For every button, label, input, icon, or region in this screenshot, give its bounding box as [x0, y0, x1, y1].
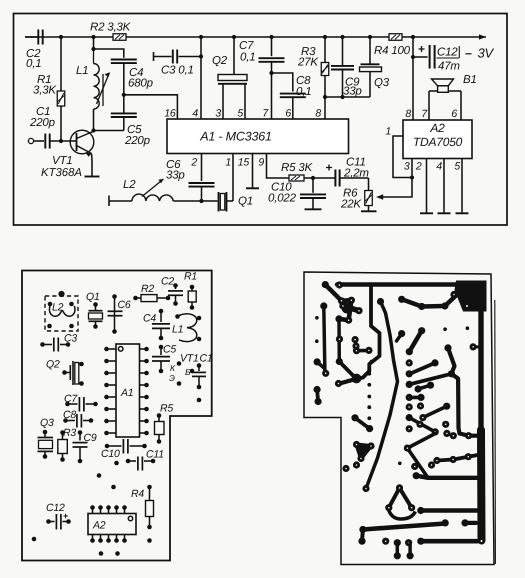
pcb pads	[398, 296, 405, 303]
layout R4	[147, 485, 152, 490]
layout R2	[133, 296, 138, 301]
svg-text:C6: C6	[118, 299, 131, 311]
pcb trace	[424, 406, 447, 417]
wire pin15	[252, 154, 254, 189]
wire A2 pin3	[411, 159, 413, 178]
svg-text:C3 0,1: C3 0,1	[161, 65, 194, 77]
layout Q2	[62, 370, 67, 375]
pcb dots column	[367, 372, 371, 376]
layout L2	[45, 296, 78, 331]
svg-text:R2: R2	[141, 283, 154, 295]
wire pin4	[200, 37, 202, 119]
pcb pad	[362, 485, 369, 492]
pcb pad	[417, 394, 424, 401]
arrow wiper	[376, 194, 383, 199]
svg-text:VT1: VT1	[180, 353, 199, 365]
svg-text:5: 5	[454, 161, 460, 173]
pcb trace V1	[324, 306, 325, 373]
svg-text:4: 4	[192, 108, 198, 120]
pcb trace V3	[366, 302, 398, 489]
pcb trace	[402, 299, 422, 306]
svg-text:KT368A: KT368A	[41, 167, 82, 179]
layout R5	[157, 413, 162, 418]
junction	[411, 55, 415, 59]
pcb pads	[336, 336, 343, 343]
capacitor C12	[429, 45, 431, 69]
capacitor C6	[201, 154, 203, 182]
layout Q3	[43, 430, 48, 435]
pcb pad	[336, 358, 343, 365]
pcb dot	[370, 360, 374, 364]
pcb pad	[419, 414, 426, 421]
capacitor C9	[342, 37, 344, 66]
pad	[32, 537, 37, 542]
svg-text:1: 1	[385, 126, 391, 138]
resistor R5	[289, 175, 304, 181]
arrow 3V	[479, 34, 486, 39]
svg-text:C5: C5	[163, 344, 176, 356]
IC A2 box	[403, 120, 472, 159]
pcb trace chain	[448, 348, 478, 436]
inductor L1	[93, 49, 95, 64]
pcb corner pour	[455, 281, 487, 312]
pcb trace	[422, 304, 445, 309]
pcb pads	[433, 457, 440, 464]
svg-text:C7: C7	[64, 393, 78, 405]
svg-text:C7: C7	[239, 40, 254, 52]
svg-text:C12: C12	[437, 47, 458, 59]
junction	[59, 35, 63, 39]
ground emitter	[85, 176, 100, 178]
pcb trace	[339, 362, 353, 376]
layout C4	[159, 309, 164, 314]
junction	[368, 35, 372, 39]
svg-text:2,2m: 2,2m	[343, 168, 369, 180]
layout R1	[190, 285, 195, 290]
wire quad net	[325, 96, 370, 98]
speaker B1	[432, 79, 454, 86]
ground pin15	[246, 187, 259, 189]
svg-text:L2: L2	[123, 179, 136, 191]
pcb row pads	[450, 432, 457, 439]
pad	[114, 461, 119, 466]
resistor R1	[57, 91, 65, 106]
pcb outline double edge	[494, 300, 497, 564]
pcb pad	[404, 445, 411, 452]
svg-text:R2 3,3K: R2 3,3K	[90, 22, 132, 34]
pcb trace	[411, 396, 422, 400]
pcb pad	[314, 358, 321, 365]
pcb trace	[437, 455, 478, 461]
svg-text:220p: 220p	[29, 117, 56, 129]
junction	[91, 35, 95, 39]
svg-text:R1: R1	[184, 271, 197, 283]
pcb pads	[398, 330, 405, 337]
wire R3 top	[324, 37, 326, 63]
ground R6	[361, 210, 377, 212]
pcb bus end hole	[481, 540, 483, 542]
svg-text:27K: 27K	[297, 57, 319, 69]
svg-text:22K: 22K	[340, 199, 362, 211]
svg-text:2: 2	[415, 161, 422, 173]
junction	[199, 54, 203, 58]
layout C7	[65, 402, 70, 407]
pcb tent	[389, 488, 412, 508]
svg-text:33p: 33p	[343, 86, 362, 98]
svg-text:L1: L1	[172, 324, 183, 336]
pcb pads top	[322, 281, 329, 288]
junction	[91, 47, 95, 51]
layout C2	[173, 283, 178, 288]
capacitor C7	[271, 37, 273, 56]
svg-text:8: 8	[405, 108, 411, 120]
wire input	[34, 140, 44, 142]
pcb dots	[443, 327, 447, 331]
pcb pads	[351, 414, 358, 421]
svg-text:6: 6	[451, 108, 457, 120]
wire wiper	[379, 178, 412, 198]
svg-text:3: 3	[215, 108, 221, 120]
svg-text:Q2: Q2	[46, 359, 60, 371]
svg-text:+: +	[326, 161, 333, 175]
svg-text:15: 15	[238, 157, 250, 169]
svg-text:16: 16	[164, 108, 176, 120]
svg-text:220p: 220p	[124, 135, 151, 147]
junction	[91, 128, 95, 132]
svg-text:Q3: Q3	[374, 77, 390, 89]
pcb trace	[397, 334, 402, 341]
wire pin16	[124, 95, 178, 119]
pcb cluster pads	[342, 303, 353, 314]
pcb right bus	[478, 309, 483, 435]
wire +3V rail	[25, 36, 113, 38]
pad	[197, 398, 202, 403]
layout C12	[46, 519, 51, 524]
pcb blob elbow	[352, 374, 362, 384]
wire C12	[412, 37, 414, 57]
svg-text:C1: C1	[200, 353, 213, 365]
layout L1	[175, 314, 180, 319]
svg-text:Э: Э	[169, 373, 175, 383]
pcb pads	[417, 402, 424, 409]
layout C1	[197, 363, 202, 368]
pcb trace long	[363, 524, 445, 530]
junction	[269, 71, 273, 75]
pcb trace D2	[410, 374, 451, 384]
wire C7-C8	[272, 73, 293, 92]
pcb trace	[416, 476, 478, 478]
svg-text:33p: 33p	[166, 170, 185, 182]
svg-text:3V: 3V	[478, 46, 495, 61]
svg-text:2: 2	[190, 157, 197, 169]
layout C10	[105, 444, 110, 449]
filter Q2	[218, 75, 247, 81]
layout C8	[63, 418, 68, 423]
pcb pad	[461, 519, 468, 526]
capacitor C2	[37, 30, 39, 45]
pcb trace	[317, 390, 318, 402]
svg-text:C2: C2	[161, 276, 174, 288]
capacitor C11	[334, 170, 336, 187]
layout C6	[112, 294, 117, 299]
resistor R6	[368, 178, 370, 191]
svg-text:R4 100: R4 100	[374, 45, 411, 57]
pcb trace	[465, 521, 476, 525]
pcb trace	[421, 539, 477, 544]
layout C3	[40, 342, 45, 347]
svg-text:3: 3	[404, 161, 410, 173]
svg-text:0,1: 0,1	[240, 52, 255, 64]
wire L1 top	[93, 37, 95, 49]
pcb trace	[407, 448, 428, 478]
svg-text:+: +	[418, 42, 425, 56]
capacitor C5	[123, 95, 125, 114]
pcb trace	[445, 296, 456, 307]
svg-text:C9: C9	[84, 432, 97, 444]
svg-text:A2: A2	[92, 520, 106, 532]
wire A2 pin5	[461, 159, 463, 214]
svg-text:Б: Б	[185, 367, 191, 377]
pcb pads	[432, 428, 439, 435]
pcb trace	[396, 543, 400, 556]
pcb pads	[359, 526, 366, 533]
svg-text:Q3: Q3	[40, 417, 54, 429]
svg-text:Q1: Q1	[238, 196, 253, 208]
junction	[199, 199, 203, 203]
layout Q1	[93, 302, 98, 307]
pcb tri pads	[353, 441, 360, 448]
wire Q2 top	[233, 37, 235, 75]
junction	[122, 93, 126, 97]
pcb trace	[340, 379, 357, 384]
pcb pad	[322, 370, 329, 377]
pcb pad	[417, 507, 424, 514]
layout board outline	[22, 271, 212, 561]
wire collector	[92, 131, 95, 132]
crystal Q1	[202, 200, 218, 202]
capacitor C1	[44, 134, 46, 149]
svg-text:6: 6	[285, 108, 291, 120]
layout C9	[78, 430, 83, 435]
pcb trace	[409, 418, 435, 432]
svg-text:1: 1	[225, 157, 231, 169]
wire +3V rail right	[402, 36, 486, 38]
pcb pads	[342, 465, 349, 472]
pcb pair	[358, 538, 365, 545]
wire to C4	[94, 49, 124, 58]
svg-text:5: 5	[237, 108, 243, 120]
pcb trace to bus	[421, 508, 478, 512]
pcb pad	[320, 302, 327, 309]
junction	[411, 35, 415, 39]
pcb pad embedded	[470, 343, 477, 350]
junction	[311, 176, 315, 180]
wire C5 to collector	[94, 130, 124, 132]
svg-text:R4: R4	[131, 488, 144, 500]
pcb pin column pads	[406, 359, 413, 366]
ground C10	[305, 208, 322, 210]
pcb u-curve	[389, 511, 416, 520]
svg-text:C8: C8	[63, 409, 76, 421]
pcb trace D1	[411, 363, 436, 374]
pcb trace V4	[337, 319, 341, 362]
terminal input	[28, 138, 33, 143]
capacitor C3	[153, 52, 155, 61]
ground A2 pin2	[420, 212, 433, 214]
svg-text:R5 3K: R5 3K	[281, 162, 313, 174]
pcb trace	[317, 362, 325, 369]
ground A2 pin4	[438, 212, 451, 214]
pcb pad	[444, 344, 451, 351]
pcb trace V2	[357, 286, 380, 379]
layout VT1	[177, 361, 182, 366]
svg-text:9: 9	[258, 157, 264, 169]
svg-text:L1: L1	[76, 65, 88, 77]
resistor R4	[389, 34, 402, 41]
svg-text:A2: A2	[429, 121, 445, 135]
wire R3 bottom	[324, 76, 326, 120]
ground A2 pin5	[456, 212, 469, 214]
svg-text:C4: C4	[143, 313, 156, 325]
pcb pads	[416, 421, 423, 428]
pcb pads row	[382, 538, 389, 545]
pad	[147, 538, 152, 543]
schematic frame	[14, 14, 508, 226]
wire C1 to base	[50, 140, 77, 142]
layout C11	[126, 459, 131, 464]
pcb trace	[418, 385, 430, 389]
IC A1 box	[167, 119, 349, 154]
wire R1 top	[60, 37, 62, 91]
svg-text:4: 4	[436, 161, 442, 173]
svg-text:L2: L2	[52, 302, 64, 314]
pcb tri cluster	[357, 445, 372, 459]
junction	[340, 35, 344, 39]
wire pin1	[232, 154, 234, 202]
wire R1 bottom	[60, 106, 62, 141]
pcb cluster	[342, 298, 352, 303]
svg-text:TDA7050: TDA7050	[413, 135, 463, 149]
pcb pad	[431, 359, 438, 366]
svg-text:0,022: 0,022	[268, 193, 297, 205]
pcb pad	[335, 380, 342, 387]
resonator Q3	[369, 37, 371, 64]
svg-text:B1: B1	[463, 74, 477, 86]
svg-text:A1: A1	[120, 387, 133, 399]
svg-text:A1 - MC3361: A1 - MC3361	[199, 130, 271, 144]
svg-text:C10: C10	[101, 448, 120, 460]
junction	[410, 175, 414, 179]
junction	[59, 139, 63, 143]
svg-text:0,1: 0,1	[26, 58, 41, 70]
wire A2 pin1	[393, 136, 412, 178]
junction	[269, 35, 273, 39]
svg-text:VT1: VT1	[52, 155, 73, 167]
resistor R3	[321, 63, 329, 76]
junction	[232, 35, 236, 39]
inductor L2	[108, 196, 110, 207]
pcb trace	[408, 543, 412, 556]
pad	[115, 551, 120, 556]
pad	[111, 485, 116, 490]
svg-text:C3: C3	[64, 333, 77, 345]
svg-text:C11: C11	[146, 449, 164, 461]
pcb pads	[314, 386, 321, 393]
pcb pads	[411, 463, 418, 470]
pcb trace top rail	[337, 282, 462, 286]
svg-text:R5: R5	[160, 403, 173, 415]
capacitor C10	[312, 178, 314, 193]
pcb trace	[325, 285, 341, 301]
junction	[199, 35, 203, 39]
pcb trace	[409, 331, 421, 352]
transistor VT1	[70, 130, 94, 154]
svg-text:680p: 680p	[128, 78, 154, 90]
layout R3	[60, 430, 65, 435]
svg-text:8: 8	[315, 108, 321, 120]
svg-text:R3: R3	[63, 427, 76, 439]
svg-text:Q2: Q2	[212, 55, 228, 67]
capacitor C8	[280, 93, 306, 95]
svg-text:Q1: Q1	[86, 291, 100, 303]
pcb mini cluster	[356, 346, 369, 351]
pad	[97, 473, 102, 478]
resistor R2	[113, 34, 126, 41]
wire C4-C5	[123, 63, 125, 95]
junction	[323, 95, 327, 99]
svg-text:+: +	[63, 511, 68, 521]
layout C5	[159, 345, 164, 350]
pcb pad	[413, 472, 420, 479]
wire pin8 A2	[412, 57, 414, 120]
svg-text:3,3K: 3,3K	[33, 85, 57, 97]
pcb pads	[415, 385, 422, 392]
pad	[99, 551, 104, 556]
pcb dots	[315, 316, 319, 320]
wire A2 pin2	[426, 159, 428, 214]
layout A1	[116, 344, 140, 437]
pcb trace	[407, 434, 435, 449]
pcb drop pads	[394, 552, 401, 559]
pcb pad	[450, 291, 457, 298]
svg-text:47m: 47m	[438, 61, 460, 73]
junction	[340, 95, 344, 99]
pcb tent pads	[396, 484, 403, 491]
svg-text:0,1: 0,1	[296, 86, 311, 98]
junction	[323, 35, 327, 39]
pcb pad	[377, 298, 384, 305]
capacitor C4	[111, 59, 137, 61]
wire pin9	[267, 154, 290, 179]
pcb outline	[304, 272, 494, 565]
layout A2	[88, 514, 136, 535]
pcb dot	[398, 462, 402, 466]
pcb trace	[355, 418, 370, 429]
pcb pad B	[448, 370, 455, 377]
wire R5-C11	[304, 177, 335, 179]
wire +3V rail mid	[126, 36, 389, 38]
wire emitter	[91, 154, 94, 161]
wire A2 pin4	[443, 159, 445, 214]
pcb pour holes	[454, 294, 456, 296]
